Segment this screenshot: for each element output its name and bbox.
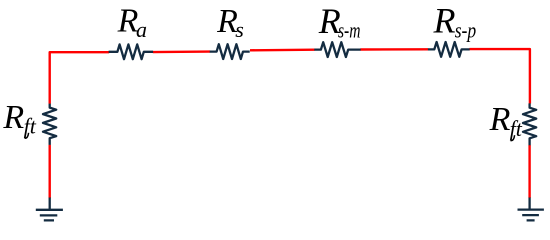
label R_ft (right) — [489, 101, 523, 141]
wire: top-right corner (horizontal run from R_s-p and right vertical drop) — [469, 49, 530, 103]
ground (right): bars — [518, 210, 544, 221]
svg-text:R: R — [2, 99, 24, 136]
resistor R_ft (right) — [523, 103, 536, 145]
svg-text:a: a — [136, 17, 147, 42]
wire: segment between R_a and R_s — [153, 50, 210, 53]
svg-text:s-p: s-p — [455, 17, 477, 42]
resistor R_s-m — [314, 42, 360, 57]
resistor R_ft (left) — [43, 104, 56, 145]
wire: right vertical segment below R_ft to ground — [528, 145, 530, 198]
svg-text:R: R — [489, 101, 511, 138]
svg-text:ft: ft — [24, 113, 37, 138]
svg-text:s: s — [235, 17, 244, 42]
label R_ft (left) — [2, 99, 36, 138]
wire: segment between R_s and R_s-m — [250, 49, 315, 52]
resistor R_s-p — [428, 42, 470, 57]
wire: top-left corner (horizontal run to R_a and left vertical drop) — [50, 52, 109, 104]
ground (left): stem — [49, 198, 51, 210]
ground (right): stem — [528, 198, 530, 210]
wire: left vertical segment below R_ft to ground — [49, 145, 51, 199]
label R_a — [117, 3, 147, 42]
ground (left): bars — [36, 210, 63, 221]
svg-text:s-m: s-m — [338, 17, 361, 42]
resistor R_a — [109, 44, 154, 59]
label R_s-p — [433, 0, 477, 42]
label R_s-m — [318, 1, 361, 42]
svg-text:ft: ft — [510, 116, 523, 141]
label R_s — [216, 3, 244, 42]
resistor R_s — [210, 44, 250, 59]
svg-text:R: R — [433, 0, 456, 40]
wire: segment between R_s-m and R_s-p — [360, 48, 428, 51]
